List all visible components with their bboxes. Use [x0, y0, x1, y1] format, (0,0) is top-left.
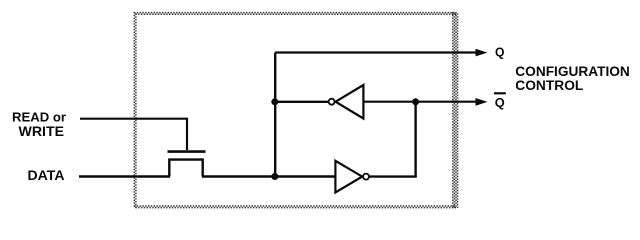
inverter U2 bubble	[363, 174, 369, 180]
wire: U2 output to right rail	[369, 175, 417, 177]
svg-text:CONTROL: CONTROL	[515, 78, 583, 93]
transistor Q1 (pass transistor) gate bar	[168, 150, 206, 153]
inverter U2 (points right) triangle	[335, 161, 362, 193]
wire: transistor drain to latch node (DATA line)	[202, 175, 336, 177]
wire: Q-bar line from U1 input side to arrow	[363, 101, 477, 103]
wire: left feedback rail	[274, 53, 276, 177]
node: junction right rail / Q-bar line	[412, 98, 419, 105]
transistor Q1 channel with source/drain steps	[169, 160, 202, 177]
svg-text:CONFIGURATION: CONFIGURATION	[515, 64, 630, 79]
svg-text:Q: Q	[495, 44, 505, 59]
op... inverter U1 (points left) bubble	[329, 99, 335, 105]
inverter U1 triangle	[336, 85, 364, 119]
node: junction left rail / U1 input	[271, 98, 278, 105]
wire: left rail to inverter U1 bubble	[275, 101, 329, 103]
dashed cell boundary box: right edge (doubled in scan)	[453, 12, 458, 208]
svg-text:WRITE: WRITE	[19, 124, 65, 139]
svg-text:Q: Q	[495, 95, 505, 110]
wire: right feedback rail	[414, 102, 416, 177]
wire: Q output line (top)	[275, 51, 477, 53]
arrow to Q-bar	[476, 98, 488, 106]
wire: READ or WRITE input to gate	[80, 119, 187, 150]
dashed cell boundary box: left edge	[134, 12, 136, 208]
svg-text:READ or: READ or	[12, 110, 66, 125]
svg-text:DATA: DATA	[28, 168, 65, 183]
node: junction DATA line / left rail / U2 input	[271, 173, 278, 180]
wire: DATA input to transistor source	[79, 175, 170, 178]
dashed cell boundary box: bottom edge	[134, 206, 456, 208]
dashed cell boundary box: top edge	[134, 13, 456, 15]
arrow to Q	[476, 49, 488, 57]
